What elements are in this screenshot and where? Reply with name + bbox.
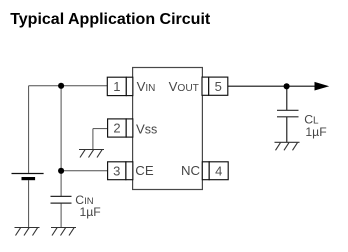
svg-text:4: 4 xyxy=(215,163,222,178)
svg-text:CE: CE xyxy=(135,163,154,178)
svg-text:Vss: Vss xyxy=(136,122,157,137)
svg-text:2: 2 xyxy=(113,121,120,136)
svg-text:1µF: 1µF xyxy=(80,205,101,219)
svg-text:Typical Application Circuit: Typical Application Circuit xyxy=(10,11,211,28)
svg-text:1µF: 1µF xyxy=(305,125,326,139)
svg-text:5: 5 xyxy=(215,79,222,94)
svg-text:NC: NC xyxy=(181,163,201,178)
svg-text:1: 1 xyxy=(113,79,120,94)
svg-text:3: 3 xyxy=(113,163,120,178)
